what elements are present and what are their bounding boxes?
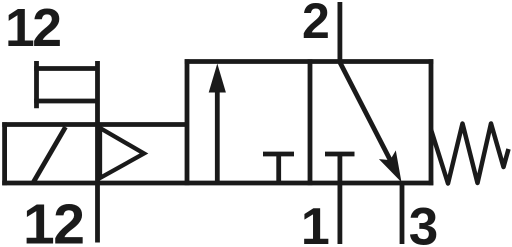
exhaust arrow head (right cell) [379,150,402,182]
flow arrow shaft (left cell, port 1 to 2) [215,90,220,185]
pilot bracket left tick [34,61,39,108]
pilot line 12 vertical [95,61,100,243]
port 2 line [337,2,342,62]
blocked port T right cell stem [337,154,342,185]
svg-text:12: 12 [23,193,83,247]
port 3 line [400,183,405,244]
blocked port T right cell bar [325,152,355,157]
valve body left edge [185,59,190,185]
svg-text:3: 3 [409,198,438,247]
valve body right edge [429,59,434,185]
valve body center divider [308,59,313,185]
pilot bracket bottom bar [34,99,97,104]
return spring [431,124,509,184]
exhaust diagonal shaft (port 2 to 3) [340,63,392,164]
svg-text:12: 12 [5,0,60,58]
port 1 line [337,183,342,244]
pilot bracket top bar [34,66,97,71]
valve body / solenoid box bottom edge (wire) [2,181,433,186]
flow arrow head (left cell) [209,64,226,93]
svg-text:1: 1 [301,198,330,247]
valve body top edge [185,59,434,64]
svg-text:2: 2 [302,0,330,49]
solenoid box top edge [2,122,187,127]
blocked port T left cell bar [263,152,294,157]
pilot triangle [100,128,144,178]
solenoid diagonal stroke [34,127,66,182]
blocked port T left cell stem [276,154,281,185]
solenoid box left edge [2,122,7,185]
